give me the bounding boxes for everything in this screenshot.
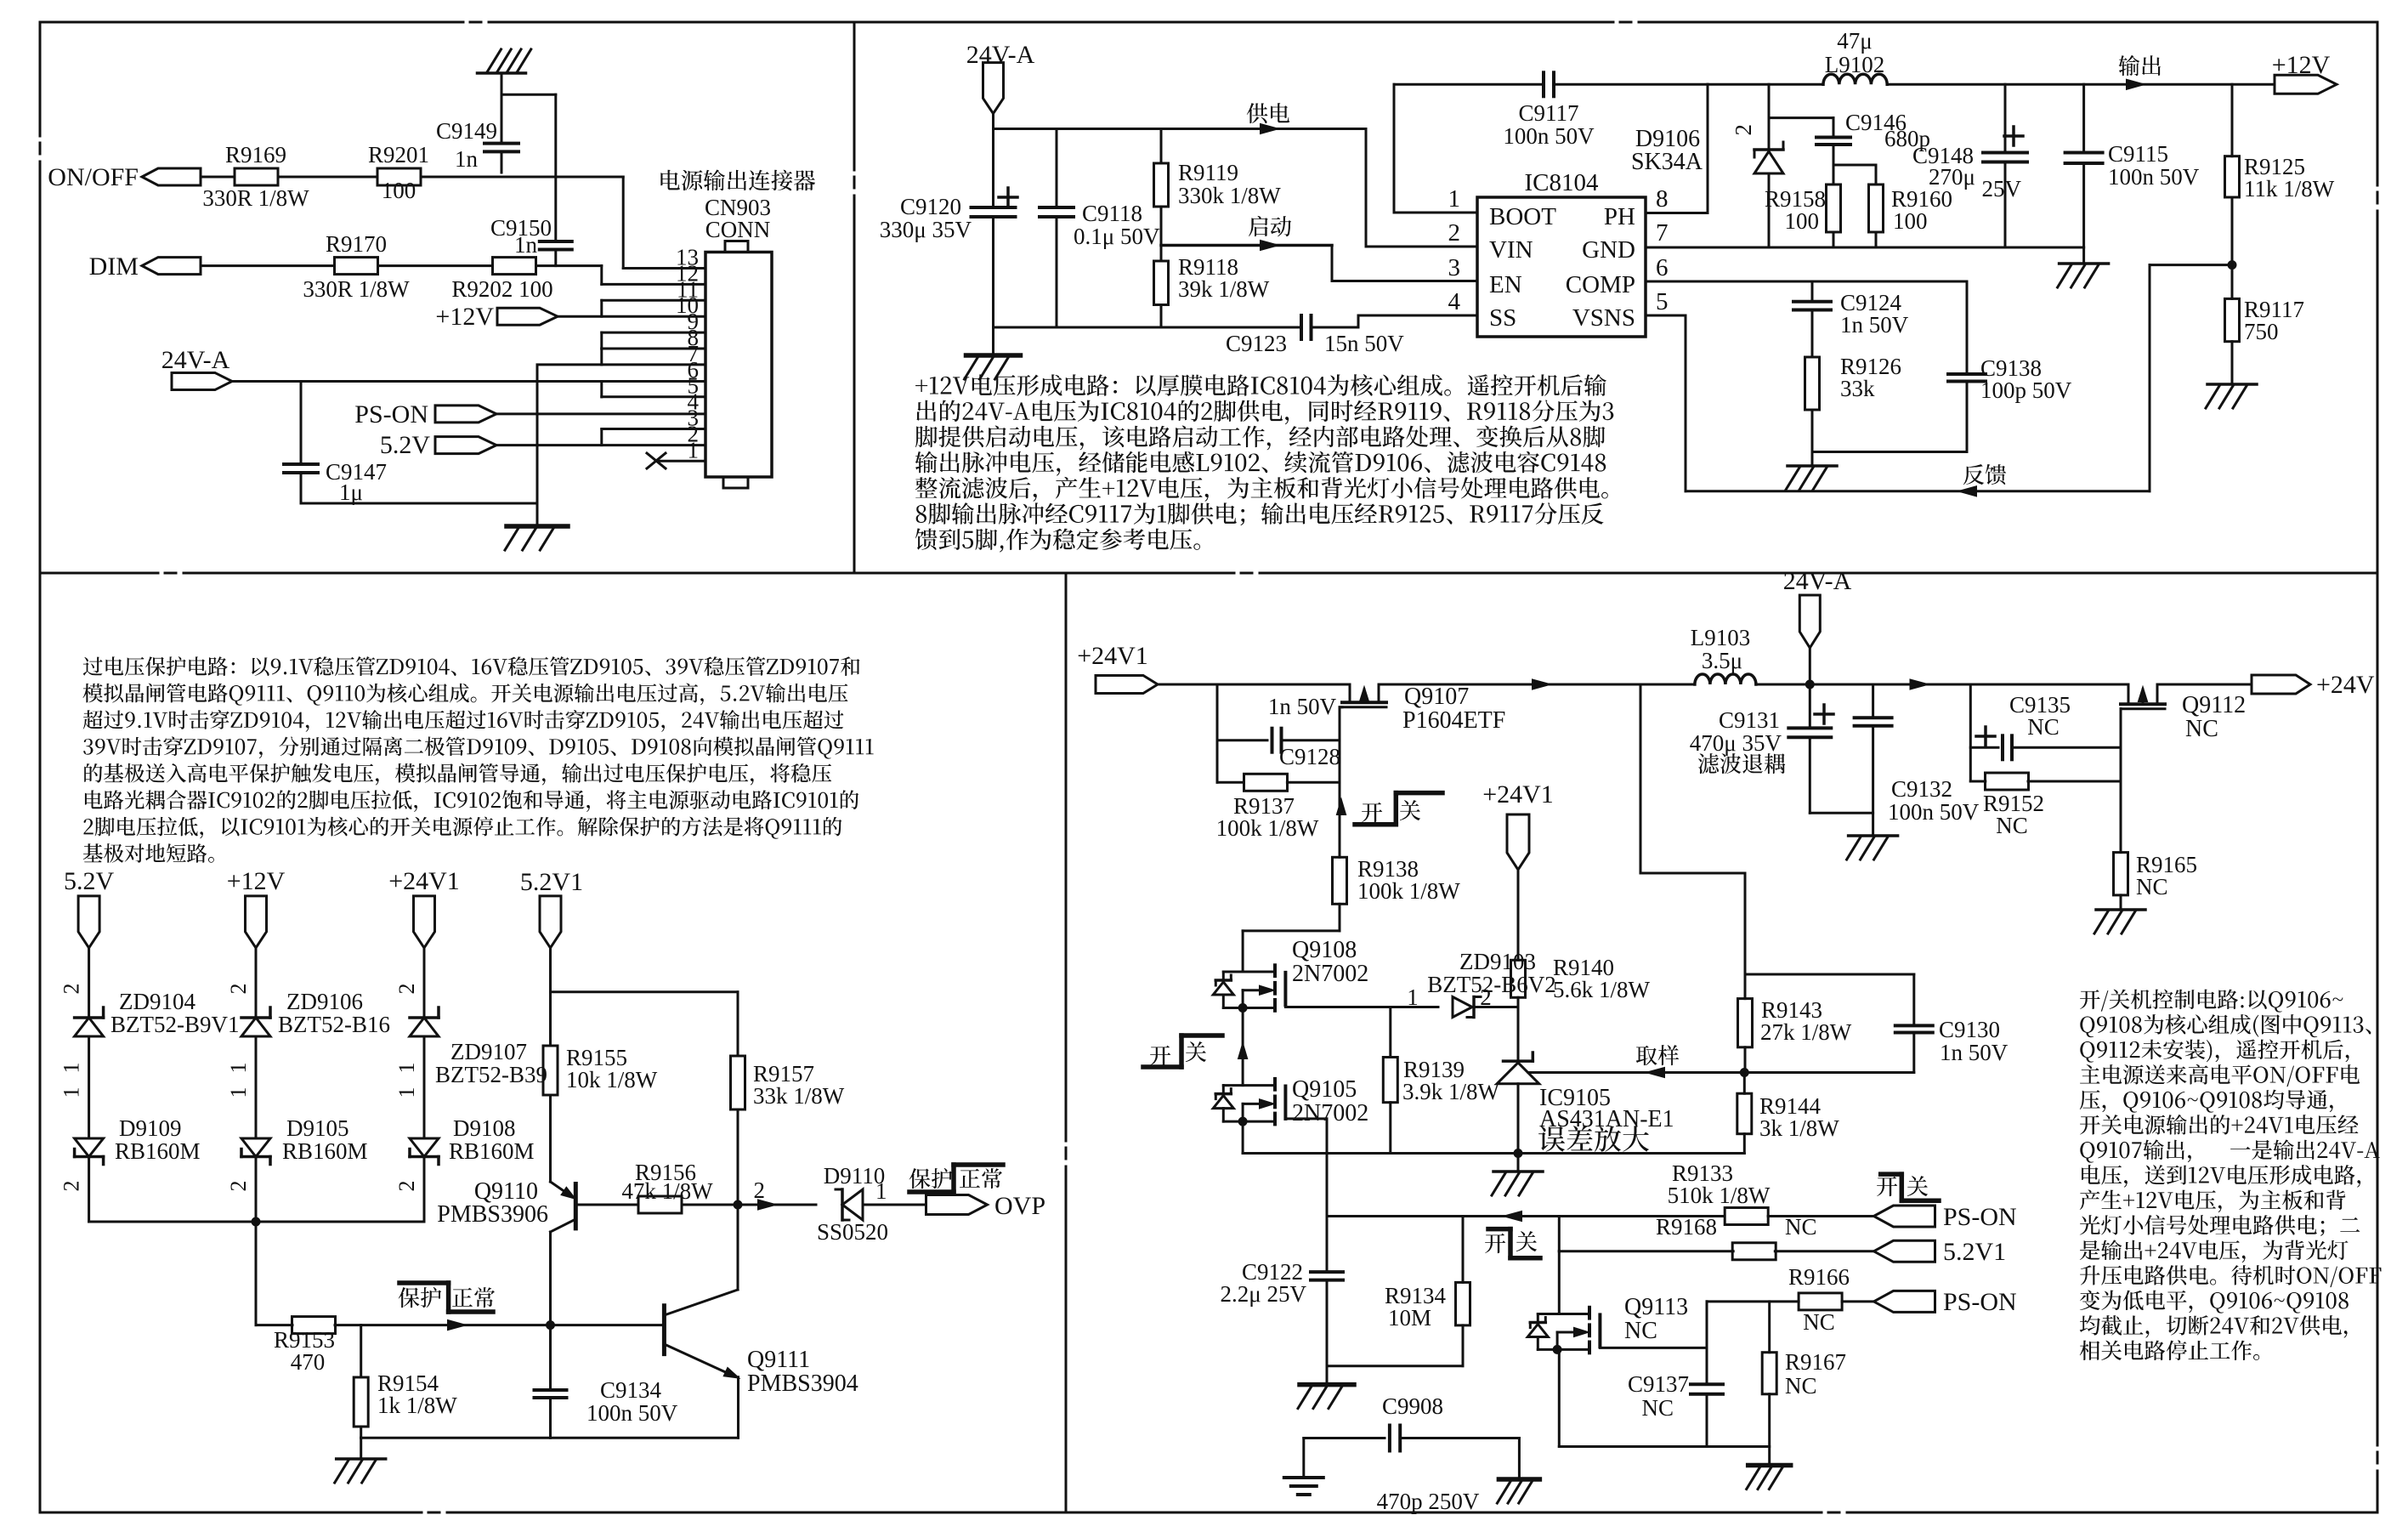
wire analog ground rail	[1243, 1152, 1744, 1155]
wire R9134 bottom to C9122	[1327, 1365, 1463, 1367]
wire +12V to zener	[255, 948, 258, 1018]
wire Q9110 base to R9156	[575, 1204, 638, 1206]
wire R9155 to Q9110 emitter	[549, 1095, 552, 1182]
wire C9147 ground rail	[301, 502, 537, 505]
resistor R9143	[1738, 999, 1753, 1047]
svg-text:100p 50V: 100p 50V	[1980, 377, 2072, 403]
svg-text:PMBS3904: PMBS3904	[747, 1370, 858, 1397]
zener ZD9106	[241, 1016, 270, 1019]
flag DIM	[142, 258, 201, 275]
flag 24V-A down	[983, 63, 1004, 114]
svg-text:8: 8	[1656, 185, 1669, 213]
wire 5.2V to CN903 pin 2	[496, 444, 705, 446]
capacitor C9118	[1056, 129, 1058, 208]
svg-text:270μ: 270μ	[1929, 164, 1975, 190]
wire Q9105 gate lead	[1285, 1117, 1327, 1120]
svg-text:3k 1/8W: 3k 1/8W	[1759, 1115, 1839, 1141]
wire +24V1 rail to Q9107	[1158, 684, 1350, 686]
wire ZD9103 to R9140 node	[1474, 1006, 1518, 1008]
svg-text:RB160M: RB160M	[115, 1138, 201, 1164]
wire junction rail to Q9113 feed	[1558, 1217, 1561, 1251]
wire VSNS feedback	[1646, 315, 1686, 317]
wire ON/OFF staircase to CN903 pin 13	[622, 177, 625, 269]
ground (below R9126)	[1811, 452, 1814, 466]
svg-text:100: 100	[1785, 208, 1820, 234]
wire bottom rail Q9113/C9137/R9167	[1559, 1445, 1769, 1448]
node base rail junction	[546, 1320, 555, 1330]
resistor R9125	[2231, 84, 2234, 156]
svg-text:R9202 100: R9202 100	[451, 276, 552, 302]
capacitor C9135	[1970, 746, 1998, 749]
svg-text:NC: NC	[1996, 813, 2028, 838]
wire C9146 branch	[1769, 116, 1833, 119]
wire rail down to VIN	[1365, 129, 1368, 247]
svg-text:2: 2	[226, 1181, 251, 1192]
wire Q9113 gate line	[1600, 1347, 1707, 1349]
svg-text:100: 100	[1893, 208, 1928, 234]
wire R9170 to R9202	[378, 264, 492, 267]
ground (below C9122)	[1300, 1382, 1354, 1387]
svg-text:C9134: C9134	[600, 1377, 662, 1403]
wire D9109 to rail	[88, 1157, 90, 1223]
svg-text:C9123: C9123	[1226, 331, 1287, 356]
divider line top half (vertical)	[853, 22, 856, 170]
svg-text:NC: NC	[2185, 716, 2218, 742]
wire R9156 to junction	[682, 1204, 738, 1206]
capacitor C9120 electrolytic	[992, 129, 994, 208]
svg-text:P1604ETF: P1604ETF	[1402, 707, 1505, 734]
zener ZD9104	[75, 1016, 104, 1019]
wire C9117 to PH riser	[1554, 83, 1708, 86]
resistor R9140	[1511, 960, 1526, 997]
svg-text:2: 2	[1731, 124, 1756, 136]
svg-text:Q9112: Q9112	[2182, 692, 2246, 718]
flag PS-ON	[1874, 1206, 1935, 1227]
svg-text:1: 1	[1448, 185, 1461, 213]
IC op-amp IC8104 body	[1477, 197, 1646, 337]
flag +24V1 down	[1507, 814, 1529, 870]
svg-text:2: 2	[394, 1181, 419, 1192]
svg-text:Q9113: Q9113	[1624, 1294, 1688, 1320]
svg-text:R9119: R9119	[1178, 160, 1238, 185]
wire R9143 feed from rail	[1640, 684, 1642, 873]
wire R9153 to Q9111 base	[335, 1324, 663, 1326]
ground (below R9165)	[2096, 908, 2145, 911]
svg-text:NC: NC	[1785, 1214, 1817, 1240]
svg-text:47μ: 47μ	[1837, 28, 1872, 54]
svg-text:1: 1	[59, 1087, 84, 1098]
wire pin11 tie to +12V	[600, 300, 603, 316]
svg-text:2: 2	[59, 1181, 84, 1192]
wire R9119/R9118 junction to EN	[1161, 244, 1332, 247]
wire D9105 to rail	[255, 1157, 258, 1223]
capacitor C9150	[554, 94, 557, 241]
node R9156/R9157 junction	[734, 1200, 743, 1210]
svg-text:+24V1: +24V1	[1077, 642, 1148, 670]
svg-text:470p 250V: 470p 250V	[1377, 1489, 1480, 1514]
wire R9144 to ground rail	[1743, 1134, 1746, 1154]
label 启动 with arrow	[1249, 216, 1291, 236]
svg-text:5.2V1: 5.2V1	[520, 868, 583, 896]
resistor R9119	[1160, 129, 1163, 164]
svg-text:1n 50V: 1n 50V	[1940, 1040, 2009, 1065]
svg-text:25V: 25V	[1982, 176, 2022, 201]
svg-text:1n: 1n	[514, 232, 538, 258]
step symbol 开关 (R9166 line)	[1488, 1227, 1510, 1232]
svg-text:C9118: C9118	[1082, 201, 1142, 226]
wire R9157 to junction	[737, 1109, 739, 1204]
wire bottom rail C9134	[361, 1437, 739, 1439]
capacitor C9124	[1811, 281, 1814, 302]
flag +12V	[246, 896, 267, 948]
svg-text:PH: PH	[1604, 203, 1635, 230]
svg-text:33k: 33k	[1840, 376, 1875, 401]
pin 1 stub with X mark	[659, 460, 705, 462]
svg-text:PS-ON: PS-ON	[1943, 1288, 2017, 1316]
flag OVP	[926, 1195, 988, 1215]
svg-text:5.2V: 5.2V	[64, 867, 115, 895]
wire Q9105 source to ground rail	[1242, 1121, 1244, 1153]
svg-text:5: 5	[1656, 288, 1669, 315]
wire Q9108 gate to ZD9103	[1285, 1006, 1438, 1008]
svg-text:Q9107: Q9107	[1404, 684, 1469, 710]
svg-text:C9117: C9117	[1518, 100, 1578, 126]
svg-text:ZD9104: ZD9104	[119, 989, 195, 1014]
wire DIM to R9170	[201, 264, 334, 267]
svg-text:C9132: C9132	[1891, 776, 1952, 802]
wire pin9 to pin8 tie	[600, 332, 603, 349]
svg-text:7: 7	[1656, 219, 1669, 247]
wire gate to R9166/C9137	[1706, 1302, 1708, 1348]
svg-text:NC: NC	[1803, 1309, 1835, 1335]
divider line between quadrants (horizontal)	[40, 572, 158, 575]
svg-text:5.2V1: 5.2V1	[1943, 1238, 2006, 1266]
svg-text:VIN: VIN	[1489, 236, 1533, 264]
svg-text:PS-ON: PS-ON	[1943, 1203, 2017, 1231]
wire Q9110 collector down	[549, 1232, 552, 1325]
svg-text:3.5μ: 3.5μ	[1702, 648, 1742, 673]
svg-text:+24V1: +24V1	[1482, 780, 1554, 809]
flag 24V-A down	[1799, 595, 1820, 648]
svg-text:R9169: R9169	[225, 142, 286, 167]
svg-text:NC: NC	[1624, 1318, 1657, 1344]
wire pin3 tie to 5.2V	[600, 429, 603, 445]
svg-text:330k 1/8W: 330k 1/8W	[1178, 183, 1281, 208]
transistor Q9111 PMBS3904	[662, 1306, 666, 1354]
resistor R9153	[292, 1317, 336, 1334]
wire rail to Q9112	[1970, 684, 2128, 686]
resistor R9158	[1833, 165, 1835, 184]
svg-text:SS: SS	[1489, 304, 1516, 332]
wire 24V-A rail	[994, 128, 1367, 130]
flag PS-ON (second)	[1874, 1291, 1935, 1312]
resistor R9170	[335, 258, 378, 275]
svg-text:Q9108: Q9108	[1292, 937, 1357, 963]
flag 5.2V	[78, 896, 99, 948]
capacitor C9117	[1542, 72, 1545, 96]
wire ON/OFF to R9169	[201, 176, 235, 179]
wire PS-ON control rail	[1327, 1215, 1725, 1217]
wire L9102 to +12V flag	[1887, 83, 2275, 86]
svg-text:330R 1/8W: 330R 1/8W	[303, 276, 410, 302]
resistor R9137	[1217, 781, 1244, 784]
svg-text:24V-A: 24V-A	[966, 41, 1035, 69]
svg-text:C9131: C9131	[1719, 707, 1780, 733]
zener ZD9103	[1453, 997, 1472, 1018]
svg-text:1μ: 1μ	[339, 479, 363, 505]
resistor R9167	[1768, 1302, 1771, 1353]
wire rail junction down to R9153	[255, 1222, 258, 1325]
wire D9108 to rail	[423, 1157, 426, 1223]
label 输出 with arrow	[2119, 55, 2161, 76]
wire +12V to CN903 pin 10	[558, 315, 705, 318]
label 供电 with arrow	[1247, 103, 1289, 123]
svg-text:BOOT: BOOT	[1489, 203, 1556, 230]
diode D9105	[241, 1138, 270, 1157]
svg-text:COMP: COMP	[1566, 271, 1635, 298]
node sampling junction	[1740, 1068, 1749, 1077]
svg-text:PS-ON: PS-ON	[354, 400, 428, 428]
wire pin8 to pin7 tie	[600, 349, 603, 365]
wire C9128/R9137 left branch	[1216, 684, 1219, 782]
svg-text:EN: EN	[1489, 271, 1522, 298]
svg-text:C9137: C9137	[1628, 1371, 1689, 1397]
svg-text:1n 50V: 1n 50V	[1268, 694, 1337, 719]
flag 5.2V1	[1874, 1240, 1935, 1262]
step symbol 保护/正常 (OVP)	[909, 1168, 953, 1189]
ground (below C9120 rail)	[992, 327, 994, 355]
resistor R9166	[1799, 1293, 1842, 1310]
resistor R9144	[1743, 1073, 1746, 1094]
capacitor C9134	[549, 1325, 552, 1390]
svg-text:D9108: D9108	[453, 1115, 516, 1141]
wire COMP pin6	[1646, 281, 1967, 283]
wire R9158/R9160 tops	[1833, 164, 1876, 167]
resistor R9138	[1333, 857, 1347, 904]
wire Q9112 to +24V flag	[2157, 684, 2252, 686]
transistor Q9113 2N7002 (NC)	[1588, 1308, 1591, 1319]
flag +24V	[2252, 675, 2310, 694]
wire diode bottom rail	[89, 1221, 424, 1223]
wire 5.2V to zener	[88, 948, 90, 1018]
flag PS-ON	[435, 406, 496, 423]
svg-text:100n 50V: 100n 50V	[1503, 123, 1595, 149]
svg-text:Q9111: Q9111	[747, 1347, 810, 1373]
wire C9135/R9152 left leg	[1969, 684, 1972, 781]
svg-text:1: 1	[394, 1063, 419, 1074]
wire R9201 to pin13 corner	[421, 176, 623, 179]
svg-text:R9166: R9166	[1788, 1264, 1850, 1290]
resistor R9169	[235, 168, 278, 185]
resistor R9155	[543, 1046, 558, 1095]
step symbol 开关 (Q9107 gate)	[1362, 803, 1382, 822]
capacitor C9122	[1326, 1217, 1329, 1273]
svg-text:RB160M: RB160M	[449, 1138, 535, 1164]
svg-text:13: 13	[676, 245, 699, 270]
svg-text:100n 50V: 100n 50V	[2108, 164, 2200, 190]
wire top rail with C9117	[1394, 83, 1544, 86]
svg-text:SK34A: SK34A	[1631, 149, 1703, 175]
svg-text:CONN: CONN	[705, 217, 771, 242]
svg-text:R9201: R9201	[368, 142, 429, 167]
wire C9123 to SS pin4	[1312, 326, 1359, 329]
wire gate leg down to R9165	[2120, 747, 2122, 852]
svg-text:2N7002: 2N7002	[1292, 1100, 1368, 1126]
label 反馈 with arrow	[1963, 464, 2006, 485]
svg-text:NC: NC	[2136, 874, 2168, 899]
wire Q9105 drain to Q9108 source	[1242, 1008, 1244, 1086]
wire ground stem pin7	[536, 365, 539, 526]
flag 24V-A	[172, 373, 232, 390]
svg-text:100n 50V: 100n 50V	[586, 1400, 678, 1426]
svg-text:BZT52-B39: BZT52-B39	[435, 1062, 547, 1087]
svg-text:ON/OFF: ON/OFF	[48, 163, 139, 191]
wire +24V1 to ZD9107	[423, 948, 426, 1018]
svg-text:1k 1/8W: 1k 1/8W	[377, 1393, 457, 1418]
svg-text:2: 2	[394, 984, 419, 995]
capacitor C9138	[1966, 281, 1969, 374]
svg-text:2N7002: 2N7002	[1292, 961, 1368, 987]
wire C9138 bottom to R9126	[1812, 451, 1967, 453]
svg-text:15n 50V: 15n 50V	[1324, 331, 1404, 356]
svg-text:330μ 35V: 330μ 35V	[880, 217, 972, 242]
svg-text:2: 2	[1448, 219, 1461, 247]
svg-text:3.9k 1/8W: 3.9k 1/8W	[1402, 1079, 1500, 1104]
transistor Q9108 2N7002	[1273, 965, 1277, 976]
wire R9140 to IC9105 cathode	[1517, 997, 1520, 1061]
svg-text:+24V: +24V	[2316, 671, 2375, 699]
svg-text:2: 2	[754, 1177, 766, 1203]
wire GND rail pin7	[1646, 247, 2084, 249]
svg-text:100n 50V: 100n 50V	[1888, 799, 1980, 825]
label 取样 with arrow	[1636, 1045, 1679, 1065]
capacitor C9137	[1706, 1302, 1708, 1384]
wire 5.2V1 stem	[549, 948, 552, 1046]
capacitor C9146	[1833, 118, 1835, 138]
svg-text:ZD9106: ZD9106	[286, 989, 363, 1014]
svg-text:ZD9107: ZD9107	[450, 1039, 527, 1064]
node IC9105 anode junction	[1514, 1149, 1523, 1158]
wire R9165 to ground	[2120, 895, 2122, 909]
svg-text:OVP: OVP	[994, 1192, 1045, 1220]
resistor R9126	[1805, 357, 1820, 410]
resistor R9133	[1725, 1208, 1768, 1225]
diode D9106 freewheel	[1768, 84, 1771, 150]
wire 5.2V1 line	[1559, 1250, 1733, 1252]
svg-text:11k 1/8W: 11k 1/8W	[2244, 176, 2335, 201]
ground (below CN903 pin 7)	[507, 524, 568, 529]
svg-text:+12V: +12V	[227, 867, 286, 895]
wire Q9113 drain feed	[1558, 1251, 1561, 1314]
IC9105 AS431 error amplifier	[1504, 1059, 1533, 1063]
ground (below IC9105)	[1517, 1154, 1520, 1172]
connector CN903 body	[705, 252, 772, 478]
svg-text:24V-A: 24V-A	[1783, 567, 1852, 595]
capacitor C9148 electrolytic	[2004, 84, 2007, 152]
svg-text:R9170: R9170	[326, 231, 387, 257]
wire pin5 tie to 24V-A	[600, 382, 603, 397]
svg-text:750: 750	[2244, 319, 2279, 344]
svg-text:470μ 35V: 470μ 35V	[1690, 730, 1782, 756]
ground (below R9117)	[2207, 383, 2257, 386]
node diode rail junction	[252, 1217, 261, 1227]
svg-text:R9167: R9167	[1785, 1349, 1846, 1375]
capacitor C9115	[2082, 84, 2085, 152]
resistor R9160	[1875, 165, 1878, 184]
svg-text:2: 2	[226, 984, 251, 995]
wire R9169 to R9201	[278, 176, 377, 179]
step symbol 开关 (Q9105 gate side)	[1150, 1046, 1170, 1065]
wire Q9112 gate down	[2120, 709, 2122, 748]
paragraph on/off control description	[2080, 990, 2343, 1013]
svg-text:C9115: C9115	[2108, 141, 2168, 167]
wire bottom rail to C9123	[994, 326, 1302, 329]
svg-text:10M: 10M	[1388, 1305, 1431, 1331]
flag +24V1	[1096, 676, 1158, 694]
svg-text:C9908: C9908	[1382, 1393, 1443, 1419]
diode D9109	[75, 1138, 104, 1157]
diode D9110 SS0520	[841, 1189, 844, 1220]
resistor R9117	[2231, 265, 2234, 299]
svg-text:1: 1	[394, 1087, 419, 1098]
wire zener to diode D9105	[255, 1036, 258, 1138]
svg-text:5.6k 1/8W: 5.6k 1/8W	[1553, 977, 1651, 1002]
wire output rail to L9102	[1708, 83, 1823, 86]
svg-text:SS0520: SS0520	[817, 1219, 888, 1245]
svg-text:33k 1/8W: 33k 1/8W	[753, 1083, 845, 1109]
svg-text:NC: NC	[2027, 714, 2060, 740]
svg-text:D9109: D9109	[119, 1115, 182, 1141]
resistor R9118	[1160, 246, 1163, 262]
svg-text:100k 1/8W: 100k 1/8W	[1216, 815, 1319, 841]
resistor R9201	[377, 168, 421, 185]
svg-text:+24V1: +24V1	[388, 867, 460, 895]
wire +24V1 to R9140	[1517, 870, 1520, 960]
svg-text:1: 1	[226, 1063, 251, 1074]
svg-text:39k 1/8W: 39k 1/8W	[1178, 276, 1270, 302]
flag +12V output	[2275, 75, 2337, 94]
svg-text:C9130: C9130	[1939, 1017, 2000, 1042]
wire Q9111 emitter down	[737, 1377, 739, 1438]
ground (below R9167)	[1748, 1463, 1791, 1468]
divider line bottom half (vertical)	[1065, 573, 1068, 1141]
page border frame	[40, 21, 463, 24]
resistor R9134	[1462, 1217, 1465, 1283]
svg-text:1: 1	[59, 1063, 84, 1074]
paragraph overvoltage protection description	[83, 656, 860, 676]
capacitor C9147	[300, 382, 303, 465]
step symbol 保护/正常 (base rail)	[399, 1280, 449, 1285]
zener ZD9107	[410, 1016, 439, 1019]
svg-text:100k 1/8W: 100k 1/8W	[1357, 878, 1460, 904]
svg-text:IC8104: IC8104	[1525, 169, 1600, 196]
svg-text:+12V: +12V	[435, 303, 494, 331]
capacitor C9908	[1304, 1437, 1385, 1439]
svg-text:24V-A: 24V-A	[161, 346, 230, 374]
svg-text:C9149: C9149	[436, 118, 497, 144]
wire ground jog to C9150	[501, 94, 556, 96]
wire R9202 to pin12 corner	[536, 264, 602, 267]
resistor R9202	[493, 258, 536, 275]
svg-text:R9168: R9168	[1656, 1214, 1717, 1240]
svg-text:C9120: C9120	[900, 194, 961, 219]
svg-text:1n 50V: 1n 50V	[1840, 312, 1909, 338]
svg-text:BZT52-B16: BZT52-B16	[278, 1012, 390, 1037]
transistor Q9105 2N7002	[1273, 1079, 1277, 1090]
svg-text:510k 1/8W: 510k 1/8W	[1668, 1183, 1771, 1208]
svg-text:2.2μ 25V: 2.2μ 25V	[1221, 1281, 1307, 1307]
capacitor C9123	[1300, 315, 1303, 339]
